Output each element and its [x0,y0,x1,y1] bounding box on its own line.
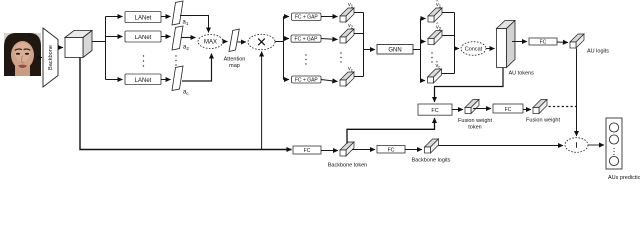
wire AU tokens to FC [512,41,527,43]
svg-text:Attention: Attention [224,57,246,63]
node v1 [340,2,354,22]
FC box (fusion) [418,104,452,115]
wire MAX to attention map [224,41,228,43]
svg-text:LANet: LANet [135,16,152,22]
svg-text:MAX: MAX [204,40,217,46]
svg-text:ac: ac [183,90,189,97]
fusion node ellipse [565,138,588,153]
LANet box 3 [125,74,161,85]
svg-text:a1: a1 [183,20,189,27]
svg-text:Fusion weight: Fusion weight [458,118,492,124]
wire a1 to MAX [180,16,209,33]
attention map a1 [172,1,189,26]
riser to multiply [261,52,263,150]
wire vc to merge [354,76,364,78]
wire FC+GAP2 to v2 [321,39,338,40]
node v-hat 1 [428,0,442,22]
svg-text:AU logits: AU logits [587,49,609,55]
svg-text:vc: vc [348,66,353,72]
splitter FC+GAP [283,17,285,80]
svg-text:FC: FC [540,39,547,45]
wire token to FC [473,108,491,110]
wire to v-hat 1 [421,18,426,20]
attention map a2 [172,26,189,51]
FC+GAP box 1 [292,13,322,21]
svg-text:FC: FC [304,148,311,154]
wire to FC+GAP 3 [284,79,290,81]
wire backbone to cube [59,47,64,49]
svg-text:map: map [229,63,240,69]
wire v-hat2 to merge [442,35,455,37]
FC box (backbone token) [293,146,321,154]
FC box (fusion weight) [493,104,523,113]
wire backbone token to FC logits [352,149,375,151]
wire LANet2 to map a2 [161,36,171,38]
FC box (AU logits) [529,38,557,45]
svg-text:LANet: LANet [135,78,152,84]
wire to FC+GAP 1 [284,16,290,18]
wire to FC+GAP 2 [284,38,290,40]
svg-text:GNN: GNN [388,48,401,54]
wire fusion node to AUs prediction [588,144,604,146]
svg-text:AU tokens: AU tokens [509,71,535,77]
node backbone token [328,142,367,169]
merge line v-hat [454,13,456,74]
LANet box 2 [125,31,161,42]
wire to LANet 3 [106,79,123,81]
AUs prediction box [606,118,640,181]
backbone trapezoid [43,28,58,87]
svg-text:token: token [468,125,481,131]
svg-text:LANet: LANet [135,35,152,41]
svg-text:FC + GAP: FC + GAP [295,78,319,84]
wire multiply to FC+GAP splitter [275,41,284,43]
dots FC+GAP column [305,54,306,64]
FC+GAP box 3 [292,76,322,84]
svg-text:Backbone logits: Backbone logits [412,158,451,164]
node v-hat c [428,60,442,83]
wire merge to GNN [364,49,376,51]
wire to v-hat 2 [421,41,426,43]
wire to LANet 1 [106,16,123,18]
AU tokens box [497,21,535,77]
feature cube [65,31,92,58]
wire v-hat1 to merge [442,12,455,14]
splitter v-hat [420,19,422,81]
attention map (merged) [224,29,246,69]
splitter for LANet branches [105,17,107,80]
svg-text:FC: FC [388,147,395,153]
wire FC to fusion weight [523,109,531,111]
merge line v [363,13,365,77]
FC+GAP box 2 [291,35,321,43]
node backbone logits [412,139,451,164]
wire to LANet 2 [106,36,123,38]
wire FC+GAP1 to v1 [321,16,338,18]
dots attention-map column [175,55,176,65]
node AU logits [570,34,609,55]
node vc [340,66,354,86]
svg-text:AUs prediction: AUs prediction [608,175,640,181]
svg-text:v1: v1 [348,2,354,8]
wire face to backbone [40,57,42,59]
dots LANet column [143,55,144,66]
MAX ellipse [198,35,223,49]
svg-text:FC: FC [431,108,438,114]
wire LANet1 to map a1 [161,16,171,18]
LANet box 1 [125,12,161,23]
wire to v-hat c [421,80,426,82]
svg-text:Backbone token: Backbone token [328,163,367,169]
wire FC to AU logits [557,41,568,44]
svg-text:FC + GAP: FC + GAP [295,15,319,21]
Concat ellipse [461,42,486,56]
bottom backbone wire [80,58,292,150]
wire AU tokens down to fusion FC [435,68,504,102]
wire v-hatc to merge [442,73,455,75]
wire FC+GAP3 to vc [321,80,338,82]
wire LANet3 to map a3 [161,79,171,81]
svg-text:FC: FC [505,107,512,113]
wire FC to backbone token [321,150,338,152]
wire v2 to merge [354,33,364,35]
wire FC to backbone logits [405,149,422,151]
wire merge to Concat [455,48,460,50]
wire a3 to MAX [182,54,212,82]
svg-text:Concat: Concat [465,47,483,53]
svg-text:a2: a2 [183,45,189,52]
wire backbone token up to fusion FC [347,118,435,144]
node v-hat 2 [428,22,442,45]
node fusion weight [526,100,560,124]
input face image [4,33,41,76]
wire fusion FC to fusion weight token [452,109,463,111]
svg-text:Fusion weight: Fusion weight [526,118,560,124]
GNN box [377,45,413,55]
multiply ellipse [248,34,275,49]
dashed wire fusion weight to fusion node [549,106,577,108]
wire a2 to MAX [181,37,196,39]
wire GNN to v-hat splitter [413,49,421,51]
svg-text:v2: v2 [348,23,354,29]
svg-text:FC + GAP: FC + GAP [295,37,319,43]
dots v column [340,52,341,62]
node fusion weight token [458,100,492,131]
wire v1 to merge [354,12,364,14]
wire Concat to AU tokens [486,48,495,50]
wire cube to LANet splitter [92,41,106,43]
FC box (backbone logits) [377,146,405,154]
wire AU logits down to fusion [576,49,578,137]
node v2 [340,23,354,43]
wire attention map to multiply [238,41,247,43]
attention map a3 [172,66,189,96]
svg-text:Backbone: Backbone [48,45,54,70]
dots v-hat column [431,52,432,62]
wire backbone logits to fusion node [438,145,563,147]
